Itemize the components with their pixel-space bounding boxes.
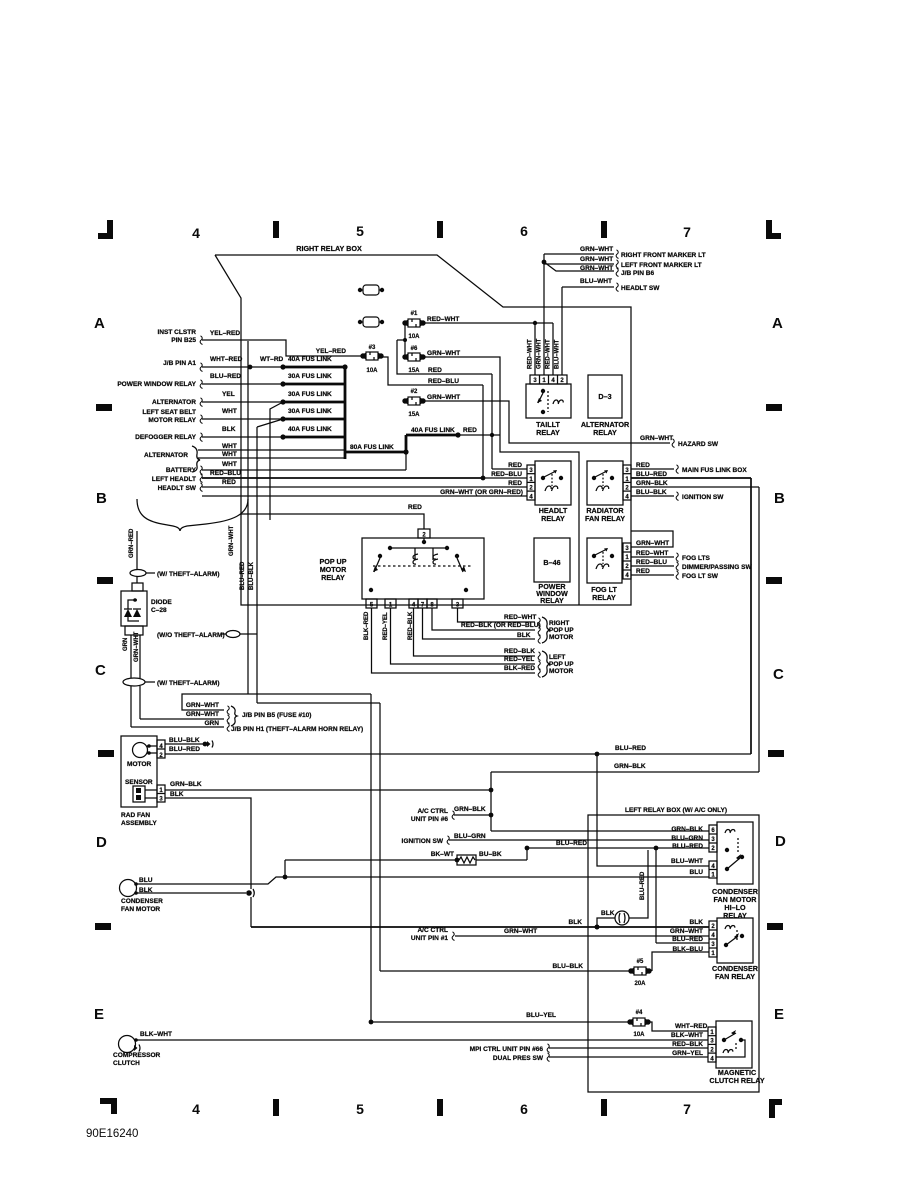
svg-text:GRN–WHT: GRN–WHT xyxy=(134,631,140,662)
svg-text:RED–BLK: RED–BLK xyxy=(672,1041,703,1048)
svg-text:BLK: BLK xyxy=(222,426,236,433)
wire 40A fus link / RED right branch xyxy=(406,427,527,469)
svg-text:RED–WHT: RED–WHT xyxy=(504,614,536,621)
node LEFT SEAT BELT MOTOR RELAY xyxy=(142,409,202,424)
wire BLU-WHT headlt sw xyxy=(562,278,660,292)
svg-text:MAIN FUS LINK BOX: MAIN FUS LINK BOX xyxy=(682,467,747,474)
svg-text:MOTOR: MOTOR xyxy=(127,761,152,768)
svg-text:HEADLT SW: HEADLT SW xyxy=(621,285,660,292)
svg-text:RED: RED xyxy=(408,504,422,511)
node A/C CTRL UNIT PIN 6 xyxy=(411,806,491,823)
node HEADLT SW xyxy=(158,483,203,492)
svg-text:RED–YEL: RED–YEL xyxy=(504,656,534,663)
svg-text:RED–BLK: RED–BLK xyxy=(504,648,535,655)
svg-text:FOG LT SW: FOG LT SW xyxy=(682,573,719,580)
wires GRN-WHT to J/B PIN B5 xyxy=(131,686,371,733)
svg-text:ALTERNATOR: ALTERNATOR xyxy=(144,452,188,459)
svg-text:BLK–WHT: BLK–WHT xyxy=(671,1032,703,1039)
magnetic clutch relay U10 xyxy=(708,1021,765,1085)
svg-text:BLU–YEL: BLU–YEL xyxy=(526,1012,556,1019)
wire BLU-BLK radiator pin4 xyxy=(631,489,724,501)
svg-text:BLU–RED: BLU–RED xyxy=(672,936,703,943)
wire RED-WHT fuse1 to taillt xyxy=(423,316,553,325)
svg-text:10A: 10A xyxy=(633,1032,645,1038)
wires to left pop up motor xyxy=(372,608,575,678)
pop up motor relay U5 xyxy=(319,529,484,599)
svg-text:A/C CTRL: A/C CTRL xyxy=(417,808,448,815)
node J/B PIN A1 xyxy=(163,360,202,372)
svg-text:RED–BLU: RED–BLU xyxy=(428,378,459,385)
svg-text:RED–BLK (OR RED–BLU): RED–BLK (OR RED–BLU) xyxy=(461,622,541,629)
svg-text:CONDENSER: CONDENSER xyxy=(121,898,163,905)
svg-text:WHT: WHT xyxy=(222,408,237,415)
svg-text:(W/ THEFT–ALARM): (W/ THEFT–ALARM) xyxy=(157,680,220,687)
svg-text:BLU–RED: BLU–RED xyxy=(640,871,646,900)
wire RED / RED-BLU pair xyxy=(381,340,492,478)
svg-text:5: 5 xyxy=(356,1101,364,1117)
svg-text:CLUTCH: CLUTCH xyxy=(113,1060,140,1067)
svg-text:20A: 20A xyxy=(634,981,646,987)
fusible link F2 (in right relay box) xyxy=(358,317,384,327)
wire BLU-BLK to fuse 5 xyxy=(380,963,631,971)
row letters right xyxy=(772,315,786,1023)
svg-text:BLU–WHT: BLU–WHT xyxy=(580,278,612,285)
connector (W/ THEFT-ALARM) upper xyxy=(130,570,220,579)
svg-text:HAZARD SW: HAZARD SW xyxy=(678,441,719,448)
wire BLU-RED / 30A fus link xyxy=(202,373,345,387)
svg-text:RELAY: RELAY xyxy=(536,428,560,437)
node INST CLSTR PIN B25 xyxy=(157,329,202,345)
svg-text:IGNITION SW: IGNITION SW xyxy=(402,838,444,845)
svg-text:GRN–WHT: GRN–WHT xyxy=(640,435,673,442)
corner mark top-right xyxy=(766,220,781,239)
svg-text:D: D xyxy=(775,833,786,850)
wire RED into pop up pin 2 xyxy=(241,504,424,529)
svg-text:MOTOR RELAY: MOTOR RELAY xyxy=(148,417,196,424)
wire GRN-WHT (OR GRN-RED) xyxy=(202,495,527,497)
svg-text:LEFT: LEFT xyxy=(549,654,565,661)
label BLU-RED pin 3 / BLK-BLU pin 1 xyxy=(672,936,703,953)
svg-text:BU–BK: BU–BK xyxy=(479,851,502,858)
svg-text:GRN–BLK: GRN–BLK xyxy=(454,806,486,813)
svg-text:UNIT PIN #1: UNIT PIN #1 xyxy=(411,935,448,942)
wire BLU-RED to condenser fan relay pin 3 xyxy=(640,848,709,943)
svg-text:BLU–BLK: BLU–BLK xyxy=(636,489,667,496)
svg-text:#6: #6 xyxy=(411,346,418,352)
svg-text:(W/ THEFT–ALARM): (W/ THEFT–ALARM) xyxy=(157,571,220,578)
svg-text:D: D xyxy=(96,834,107,851)
fuse #5 20A xyxy=(628,959,651,987)
wire BLK rad fan pin 3 xyxy=(165,791,251,927)
svg-text:DEFOGGER RELAY: DEFOGGER RELAY xyxy=(135,434,197,441)
bus 80A fus link xyxy=(344,365,406,459)
wire BLK condenser motor xyxy=(136,889,254,897)
right edge ticks xyxy=(766,404,784,930)
svg-text:RED: RED xyxy=(508,462,522,469)
svg-text:RED–BLU: RED–BLU xyxy=(636,559,667,566)
svg-text:30A FUS LINK: 30A FUS LINK xyxy=(288,391,332,398)
svg-text:FOG LTS: FOG LTS xyxy=(682,555,711,562)
taillt relay U1 xyxy=(526,375,571,437)
svg-text:RELAY: RELAY xyxy=(541,514,565,523)
svg-text:40A FUS LINK: 40A FUS LINK xyxy=(288,426,332,433)
headlt relay pin labels xyxy=(440,462,523,496)
svg-text:RIGHT: RIGHT xyxy=(549,620,569,627)
svg-text:BLU–WHT: BLU–WHT xyxy=(555,339,561,369)
long vertical wires BLU-RED / BLU-BLK xyxy=(229,341,380,703)
wires GRN / GRN-WHT below diode xyxy=(123,631,140,678)
svg-text:WHT: WHT xyxy=(222,461,237,468)
svg-text:BLU–RED: BLU–RED xyxy=(556,840,587,847)
svg-text:40A FUS LINK: 40A FUS LINK xyxy=(411,427,455,434)
node LEFT HEADLT xyxy=(152,474,203,483)
svg-text:15A: 15A xyxy=(408,412,420,418)
fuse #4 10A xyxy=(627,1010,650,1038)
svg-text:GRN–WHT (OR GRN–RED): GRN–WHT (OR GRN–RED) xyxy=(440,489,523,496)
svg-text:BLU–RED: BLU–RED xyxy=(240,561,246,590)
wire GRN-WHT from fuse6 xyxy=(423,350,579,605)
wires to right pop up motor xyxy=(364,608,574,644)
svg-text:DIMMER/PASSING SW: DIMMER/PASSING SW xyxy=(682,564,753,571)
svg-text:LEFT RELAY BOX (W/ A/C ONLY): LEFT RELAY BOX (W/ A/C ONLY) xyxy=(625,807,727,814)
svg-text:RELAY: RELAY xyxy=(593,428,617,437)
svg-text:RIGHT FRONT MARKER LT: RIGHT FRONT MARKER LT xyxy=(621,252,706,259)
svg-text:10A: 10A xyxy=(408,334,420,340)
long vertical wires to D/E rows xyxy=(371,694,380,1022)
svg-text:PIN B25: PIN B25 xyxy=(171,337,196,344)
condenser fan motor M2 xyxy=(120,877,164,913)
svg-text:15A: 15A xyxy=(408,368,420,374)
fuse #6 15A xyxy=(402,346,425,374)
wire YEL / 30A fus link xyxy=(202,391,345,520)
svg-text:POP UP: POP UP xyxy=(549,661,574,668)
wire BLU-RED rad fan pin 2 to radiator relay xyxy=(165,745,751,756)
connector (W/ THEFT-ALARM) lower xyxy=(123,678,220,687)
top edge ticks xyxy=(273,221,607,238)
column numbers top xyxy=(192,223,691,241)
svg-text:BLU–GRN: BLU–GRN xyxy=(454,833,486,840)
power window relay U6 xyxy=(534,538,570,605)
svg-text:GRN–WHT: GRN–WHT xyxy=(537,338,543,369)
fusible link F1 (in right relay box) xyxy=(358,285,384,295)
svg-text:RED–WHT: RED–WHT xyxy=(427,316,459,323)
svg-text:COMPRESSOR: COMPRESSOR xyxy=(113,1052,161,1059)
svg-text:POWER WINDOW RELAY: POWER WINDOW RELAY xyxy=(117,381,196,388)
svg-text:7: 7 xyxy=(683,1101,691,1117)
svg-text:A: A xyxy=(94,315,105,332)
corner mark bottom-left xyxy=(100,1098,117,1114)
svg-text:6: 6 xyxy=(520,1101,528,1117)
svg-text:BLK: BLK xyxy=(517,632,531,639)
svg-text:GRN–WHT: GRN–WHT xyxy=(427,394,460,401)
svg-text:5: 5 xyxy=(356,223,364,239)
svg-text:GRN–WHT: GRN–WHT xyxy=(186,711,219,718)
svg-text:BLU–RED: BLU–RED xyxy=(169,746,200,753)
node ALTERNATOR xyxy=(152,398,203,407)
wire GRN-BLK into pin 6 xyxy=(491,830,709,832)
condenser fan motor hi-lo relay U8 xyxy=(709,822,759,920)
svg-text:RELAY: RELAY xyxy=(321,573,345,582)
svg-text:RED: RED xyxy=(222,479,236,486)
svg-text:YEL–RED: YEL–RED xyxy=(316,348,346,355)
fog lt relay U7 xyxy=(587,538,631,602)
svg-text:BLU–BLK: BLU–BLK xyxy=(169,737,200,744)
wire WHT / 30A fus link xyxy=(202,408,345,427)
fog relay pin wires xyxy=(631,531,753,580)
svg-text:A: A xyxy=(772,315,783,332)
hi-lo relay pin labels xyxy=(671,826,703,850)
svg-text:GRN–WHT: GRN–WHT xyxy=(229,525,235,556)
node IGNITION SW xyxy=(402,833,709,845)
corner mark top-left xyxy=(98,220,113,239)
node BATTERY xyxy=(166,466,203,475)
svg-text:GRN: GRN xyxy=(123,638,129,651)
svg-text:BLU–RED: BLU–RED xyxy=(672,843,703,850)
svg-text:4: 4 xyxy=(192,225,200,241)
svg-text:MPI CTRL UNIT PIN #66: MPI CTRL UNIT PIN #66 xyxy=(470,1046,544,1053)
pop up relay bottom pins xyxy=(366,599,463,609)
svg-text:FAN RELAY: FAN RELAY xyxy=(715,972,755,981)
wire BLU condenser motor to relay pin 1 xyxy=(136,860,709,884)
svg-text:MOTOR: MOTOR xyxy=(549,668,574,675)
svg-text:E: E xyxy=(774,1006,784,1023)
svg-text:GRN–WHT: GRN–WHT xyxy=(670,928,703,935)
svg-text:BLU: BLU xyxy=(690,869,704,876)
wire vertical linking fuse1/fuse6 xyxy=(397,323,407,357)
svg-text:WHT: WHT xyxy=(222,443,237,450)
svg-text:E: E xyxy=(94,1006,104,1023)
svg-text:GRN–WHT: GRN–WHT xyxy=(636,540,669,547)
wires GRN-WHT to marker lights xyxy=(542,246,706,277)
wire WHT alternator top xyxy=(198,443,344,450)
svg-text:RED: RED xyxy=(463,427,477,434)
svg-text:YEL: YEL xyxy=(222,391,235,398)
wire GRN-BLK radiator pin2 xyxy=(631,480,759,772)
rad fan assembly M1 xyxy=(121,736,165,827)
row letters left xyxy=(94,315,107,1023)
svg-text:RED–YEL: RED–YEL xyxy=(383,612,389,640)
svg-text:RELAY: RELAY xyxy=(540,596,564,605)
svg-text:40A FUS LINK: 40A FUS LINK xyxy=(288,356,332,363)
svg-text:10A: 10A xyxy=(366,368,378,374)
node POWER WINDOW RELAY xyxy=(117,380,202,389)
resistor BK-WT / BU-BK xyxy=(285,846,529,865)
wire GRN-BLK rad fan pin 1 xyxy=(165,781,493,792)
svg-text:GRN–WHT: GRN–WHT xyxy=(186,702,219,709)
radiator relay pin wires right xyxy=(631,462,747,474)
svg-text:BK–WT: BK–WT xyxy=(431,851,454,858)
svg-text:BLU: BLU xyxy=(139,877,153,884)
wire BLU-YEL to fuse 4 xyxy=(369,1012,630,1024)
svg-text:LEFT SEAT BELT: LEFT SEAT BELT xyxy=(142,409,196,416)
svg-text:LEFT HEADLT: LEFT HEADLT xyxy=(152,476,196,483)
brace bundle row B xyxy=(137,499,248,531)
node DUAL PRES SW xyxy=(493,1050,708,1062)
svg-text:RED: RED xyxy=(508,480,522,487)
svg-text:BLK–RED: BLK–RED xyxy=(504,665,535,672)
wire GRN-WHT fuse2 to hazard xyxy=(423,394,719,448)
svg-text:SENSOR: SENSOR xyxy=(125,779,153,786)
svg-text:A/C CTRL: A/C CTRL xyxy=(417,927,448,934)
svg-text:80A FUS LINK: 80A FUS LINK xyxy=(350,444,394,451)
svg-text:6: 6 xyxy=(520,223,528,239)
connector circle BLK xyxy=(595,850,648,929)
svg-text:J/B PIN A1: J/B PIN A1 xyxy=(163,360,196,367)
svg-text:C: C xyxy=(95,662,106,679)
svg-text:UNIT PIN #6: UNIT PIN #6 xyxy=(411,816,448,823)
svg-text:BLK: BLK xyxy=(170,791,184,798)
compressor clutch M3 xyxy=(113,1031,172,1067)
svg-text:ALTERNATOR: ALTERNATOR xyxy=(152,399,196,406)
svg-text:BLK–WHT: BLK–WHT xyxy=(140,1031,172,1038)
svg-text:GRN–BLK: GRN–BLK xyxy=(636,480,668,487)
svg-text:BLU–WHT: BLU–WHT xyxy=(671,858,703,865)
wire GRN-BLK from radiator relay down xyxy=(489,763,759,831)
svg-text:WT–RD: WT–RD xyxy=(260,356,284,363)
wire GRN-WHT to condenser fan relay pin 4 xyxy=(455,928,709,936)
svg-text:BLK: BLK xyxy=(601,910,615,917)
svg-text:HEADLT SW: HEADLT SW xyxy=(158,485,197,492)
wire WHT-RED fuse 4 to magnetic clutch relay pin 1 xyxy=(648,1022,708,1031)
wire RED headlt sw xyxy=(202,479,527,487)
svg-text:FAN MOTOR: FAN MOTOR xyxy=(121,906,160,913)
node ALTERNATOR (pair) xyxy=(144,446,200,472)
svg-text:7: 7 xyxy=(683,224,691,240)
svg-text:GRN–WHT: GRN–WHT xyxy=(427,350,460,357)
wire BLU-RED radiator pin1 xyxy=(631,471,751,754)
svg-text:4: 4 xyxy=(192,1101,200,1117)
svg-text:INST CLSTR: INST CLSTR xyxy=(157,329,196,336)
svg-text:B–46: B–46 xyxy=(543,558,560,567)
svg-text:GRN–YEL: GRN–YEL xyxy=(672,1050,703,1057)
node A/C CTRL UNIT PIN 1 xyxy=(411,927,455,942)
wire WHT battery xyxy=(202,449,409,470)
alternator relay U2 xyxy=(581,375,630,437)
svg-text:GRN–RED: GRN–RED xyxy=(129,528,135,558)
vertical wires into taillt relay xyxy=(528,254,563,375)
fuse #2 15A xyxy=(402,389,425,418)
svg-text:#4: #4 xyxy=(636,1010,643,1016)
headlt relay U3 xyxy=(527,461,571,523)
svg-text:90E16240: 90E16240 xyxy=(86,1128,138,1140)
svg-text:(W/O THEFT–ALARM): (W/O THEFT–ALARM) xyxy=(157,632,225,639)
svg-text:BATTERY: BATTERY xyxy=(166,467,197,474)
wire YEL-RED from inst clstr xyxy=(202,330,361,356)
svg-text:POP UP: POP UP xyxy=(549,627,574,634)
svg-text:BLU–RED: BLU–RED xyxy=(210,373,241,380)
corner mark bottom-right xyxy=(769,1099,782,1118)
svg-text:D–3: D–3 xyxy=(598,392,611,401)
svg-text:C–28: C–28 xyxy=(151,607,167,614)
svg-text:MOTOR: MOTOR xyxy=(549,634,574,641)
svg-text:J/B PIN B5 (FUSE #10): J/B PIN B5 (FUSE #10) xyxy=(242,712,312,719)
column numbers bottom xyxy=(192,1101,691,1117)
bottom edge ticks xyxy=(273,1099,607,1116)
svg-text:FAN RELAY: FAN RELAY xyxy=(585,514,625,523)
condenser fan relay U9 xyxy=(709,918,759,981)
wire BLK-BLU pin 1 to fuse 5 xyxy=(652,952,709,971)
wire BLU-WHT to hi-lo pin 4 xyxy=(597,754,709,866)
svg-text:LEFT FRONT MARKER LT: LEFT FRONT MARKER LT xyxy=(621,262,702,269)
svg-text:GRN–BLK: GRN–BLK xyxy=(614,763,646,770)
svg-text:RELAY: RELAY xyxy=(592,593,616,602)
svg-text:#1: #1 xyxy=(411,311,418,317)
wire BLK to condenser fan relay pin 2 xyxy=(251,919,709,929)
left edge ticks xyxy=(95,404,114,930)
svg-text:RED–WHT: RED–WHT xyxy=(636,550,668,557)
svg-text:WHT–RED: WHT–RED xyxy=(675,1023,708,1030)
svg-text:RAD FAN: RAD FAN xyxy=(121,812,150,819)
svg-text:ASSEMBLY: ASSEMBLY xyxy=(121,820,157,827)
node DEFOGGER RELAY xyxy=(135,433,202,442)
svg-text:#3: #3 xyxy=(369,345,376,351)
svg-text:DIODE: DIODE xyxy=(151,599,172,606)
svg-text:RIGHT RELAY BOX: RIGHT RELAY BOX xyxy=(296,244,362,253)
svg-text:RED–BLU: RED–BLU xyxy=(210,470,241,477)
svg-text:RED–WHT: RED–WHT xyxy=(528,339,534,369)
svg-text:BLU–BLK: BLU–BLK xyxy=(552,963,583,970)
svg-text:BLK–RED: BLK–RED xyxy=(364,611,370,640)
svg-text:RED: RED xyxy=(636,568,650,575)
svg-text:C: C xyxy=(773,666,784,683)
wire WHT-RED / 40A fus link xyxy=(202,356,348,370)
wire WHT alternator bottom xyxy=(198,451,346,458)
svg-text:GRN–WHT: GRN–WHT xyxy=(504,928,537,935)
diode D1 C-28 xyxy=(121,576,172,635)
svg-text:GRN–WHT: GRN–WHT xyxy=(580,246,613,253)
svg-text:RED–BLU: RED–BLU xyxy=(491,471,522,478)
svg-text:RELAY: RELAY xyxy=(723,911,747,920)
wire GRN-RED down to theft alarm xyxy=(129,528,137,569)
svg-text:BLU–RED: BLU–RED xyxy=(615,745,646,752)
wire RED-BLU left headlt xyxy=(202,470,527,480)
svg-text:GRN: GRN xyxy=(204,720,219,727)
svg-text:30A FUS LINK: 30A FUS LINK xyxy=(288,373,332,380)
svg-text:GRN–BLK: GRN–BLK xyxy=(170,781,202,788)
node MPI CTRL UNIT PIN 66 xyxy=(470,1041,708,1053)
svg-text:DUAL PRES SW: DUAL PRES SW xyxy=(493,1055,544,1062)
svg-text:B: B xyxy=(774,490,785,507)
svg-text:WHT: WHT xyxy=(222,451,237,458)
svg-text:CLUTCH RELAY: CLUTCH RELAY xyxy=(709,1076,764,1085)
svg-text:#2: #2 xyxy=(411,389,418,395)
svg-text:WHT–RED: WHT–RED xyxy=(210,356,243,363)
fuse #3 10A xyxy=(360,345,383,374)
wire BLU-BLK rad fan pin 4 xyxy=(165,737,213,748)
svg-text:GRN–BLK: GRN–BLK xyxy=(671,826,703,833)
svg-text:RED–WHT: RED–WHT xyxy=(546,339,552,369)
svg-text:J/B PIN H1 (THEFT–ALARM HORN R: J/B PIN H1 (THEFT–ALARM HORN RELAY) xyxy=(231,726,363,733)
svg-text:RED: RED xyxy=(636,462,650,469)
svg-text:B: B xyxy=(96,490,107,507)
svg-text:BLU–BLK: BLU–BLK xyxy=(249,561,255,590)
svg-text:#5: #5 xyxy=(637,959,644,965)
svg-text:YEL–RED: YEL–RED xyxy=(210,330,240,337)
svg-text:30A FUS LINK: 30A FUS LINK xyxy=(288,408,332,415)
svg-text:RED: RED xyxy=(428,367,442,374)
connector (W/O THEFT-ALARM) xyxy=(157,631,257,640)
wire BLU-RED to hi-lo relay pin 2 xyxy=(527,840,709,850)
svg-text:J/B PIN B6: J/B PIN B6 xyxy=(621,270,654,277)
svg-text:GRN–WHT: GRN–WHT xyxy=(580,256,613,263)
wire BLK-WHT to magnetic clutch relay pin 3 xyxy=(136,1032,708,1040)
wire BLK / 40A fus link xyxy=(202,426,345,440)
svg-text:BLK: BLK xyxy=(690,919,704,926)
radiator fan relay U4 xyxy=(585,461,631,523)
svg-text:BLU–RED: BLU–RED xyxy=(636,471,667,478)
fuse #1 10A xyxy=(402,311,425,340)
svg-text:BLU–GRN: BLU–GRN xyxy=(671,835,703,842)
